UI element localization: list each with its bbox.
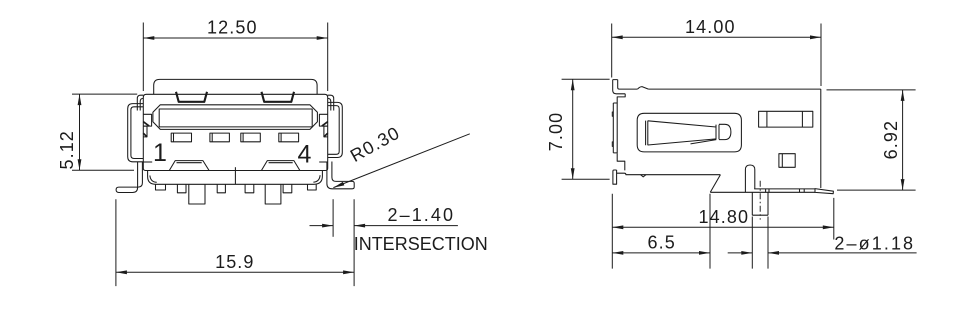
through pin 2: [265, 184, 281, 204]
solder tab E: [283, 184, 292, 193]
dim 6.5 extension line: [709, 194, 711, 269]
bottom notch diagonal: [710, 175, 720, 193]
right leg and foot: [327, 162, 354, 189]
dim 1.18 extension lines: [752, 217, 768, 269]
arrows 14.00: [612, 35, 623, 39]
front flange outline: [143, 94, 327, 170]
flange side tab lower-left: [143, 126, 147, 137]
dim 14.80 line: [612, 226, 834, 228]
svg-text:6.92: 6.92: [881, 120, 901, 159]
arrows 14.80: [612, 225, 623, 229]
latch spring slants: [648, 121, 717, 145]
top right window: [759, 111, 813, 127]
left side fold strip: [137, 95, 143, 110]
dim 12.50 extension lines: [143, 23, 327, 92]
tongue inner face: [159, 109, 312, 127]
dim 15.9 line: [116, 271, 354, 273]
ledge right: [319, 161, 327, 163]
dim 14.80 extension lines: [612, 194, 834, 269]
latch slot capsule: [637, 113, 741, 152]
svg-text:1: 1: [153, 139, 168, 167]
arrows 2-1.40: [322, 224, 333, 228]
dark wedge left: [143, 122, 149, 137]
latch spring tip: [716, 124, 731, 139]
dim 7.00 extension lines: [562, 79, 610, 179]
dim 6.92 extension lines: [827, 90, 916, 190]
bottom L tab: [613, 170, 617, 184]
dim 14.00 line: [612, 36, 821, 38]
right side fold strip: [328, 95, 334, 110]
pin centerline: [759, 181, 761, 220]
lower bottom edge: [710, 191, 815, 193]
band tick 4: [803, 189, 805, 192]
solder tab F: [308, 184, 317, 190]
lip nub lower: [612, 142, 613, 147]
svg-text:12.50: 12.50: [207, 18, 258, 38]
svg-text:INTERSECTION: INTERSECTION: [354, 234, 488, 254]
shell top cap: [154, 79, 317, 94]
dim 2-1.40 extension line: [332, 199, 334, 237]
dim 15.9 extension lines: [116, 199, 354, 286]
dim 14.00 extension lines: [612, 24, 821, 87]
latch bump left: [169, 161, 209, 171]
body top edge: [648, 88, 820, 90]
right foot wedge: [815, 189, 833, 194]
right ear inner line: [328, 106, 340, 155]
contact window 3: [241, 133, 260, 142]
dim 5.12 line: [79, 94, 81, 170]
band inner corner arcs: [150, 175, 320, 182]
arrows 6.92: [901, 90, 905, 101]
front lip: [613, 102, 617, 154]
dim 1.18 lines: [728, 252, 917, 254]
solder tab D: [245, 184, 254, 193]
svg-text:7.00: 7.00: [546, 112, 566, 151]
bottom front ledge: [617, 173, 721, 175]
svg-text:2–1.40: 2–1.40: [387, 205, 455, 225]
latch bump right: [261, 161, 300, 171]
arrows 6.5: [612, 251, 623, 255]
latch spring root: [646, 121, 648, 146]
through pin side: [752, 192, 768, 215]
band divider: [234, 167, 236, 184]
ledge left: [144, 161, 153, 163]
left ear inner line: [131, 107, 143, 159]
dim 5.12 extension lines: [72, 94, 137, 170]
front step upper: [617, 94, 625, 102]
arrows 7.00: [571, 79, 575, 90]
bottom band line: [754, 188, 815, 190]
band tick 1: [765, 189, 767, 192]
dim 12.50 line: [143, 37, 327, 39]
left mounting ear: [128, 104, 144, 162]
arrows 5.12: [78, 94, 82, 105]
dark wedge right: [322, 122, 328, 137]
tongue outer outline: [153, 105, 318, 130]
contact window 4: [279, 133, 299, 142]
bottom edge dimple: [641, 175, 646, 177]
arrows 1.18: [741, 251, 752, 255]
svg-text:14.00: 14.00: [685, 17, 736, 37]
leader R0.30: [333, 134, 469, 188]
shell window left: [176, 92, 207, 102]
dim 6.92 line: [902, 90, 904, 190]
dim 2-1.40 lines: [310, 225, 458, 227]
contact window 1: [171, 133, 191, 142]
svg-text:14.80: 14.80: [699, 207, 750, 227]
arrow R0.30: [333, 182, 345, 190]
front step lower: [617, 153, 625, 170]
svg-text:15.9: 15.9: [215, 252, 254, 272]
lip nub upper: [612, 112, 613, 116]
band tick 2: [768, 189, 770, 192]
dim 7.00 line: [572, 79, 574, 179]
through pin 1: [189, 184, 205, 204]
dim 6.5 line: [612, 252, 710, 254]
arrows 15.9: [116, 270, 127, 274]
top L tab: [613, 80, 638, 94]
svg-text:R0.30: R0.30: [347, 123, 404, 166]
locating peg: [745, 165, 754, 192]
left leg and foot: [116, 162, 142, 193]
right mounting ear: [328, 102, 343, 157]
solder tab B: [177, 184, 186, 193]
small square window: [779, 154, 795, 168]
shell window right: [262, 92, 295, 102]
svg-text:5.12: 5.12: [57, 130, 77, 169]
bottom band: [148, 171, 323, 185]
contact window 2: [210, 133, 230, 142]
band tick 3: [799, 189, 801, 192]
flange side tab lower-right: [324, 126, 328, 137]
body right edge: [820, 89, 822, 188]
flange side tab upper-right: [319, 114, 327, 126]
flange side tab upper-left: [143, 114, 151, 126]
arrows 12.50: [143, 36, 154, 40]
solder tab A: [156, 184, 166, 190]
solder tab C: [217, 184, 225, 193]
svg-text:2–ø1.18: 2–ø1.18: [834, 233, 915, 253]
svg-text:4: 4: [297, 141, 312, 169]
top edge dimple: [638, 87, 649, 90]
svg-text:6.5: 6.5: [648, 232, 676, 252]
